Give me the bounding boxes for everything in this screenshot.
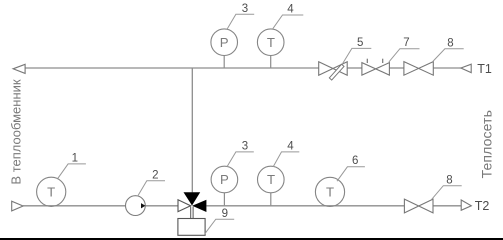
leader label 5 [342, 48, 371, 64]
svg-text:8: 8 [447, 37, 453, 49]
svg-text:В теплообменник: В теплообменник [9, 79, 24, 184]
wire bottom line from three-way valve to valve 8 [206, 205, 404, 207]
valve 7 tick left [366, 59, 368, 63]
svg-text:Т2: Т2 [475, 199, 490, 213]
svg-text:P: P [220, 172, 229, 187]
leader label 4 bottom [273, 152, 299, 167]
gauge T circle 4 top [257, 29, 284, 56]
svg-text:2: 2 [152, 169, 158, 181]
gauge P stem (pressure gauge 3 bottom) [223, 193, 225, 206]
leader label 1 [58, 164, 86, 179]
wire top line valve 8 to T1 arrow [433, 67, 461, 69]
wire bottom line valve 8 to T2 arrow [433, 205, 461, 207]
border bottom rule [0, 238, 503, 240]
svg-text:6: 6 [352, 155, 358, 167]
gauge P1 stem (pressure gauge 3 top) [223, 55, 225, 68]
svg-text:4: 4 [287, 4, 294, 16]
gauge P circle 3 bottom [211, 166, 238, 193]
svg-text:T: T [267, 172, 275, 187]
pump 2 arrow [141, 203, 145, 208]
leader label 8 bottom [432, 186, 462, 200]
thermometer T circle (item 6) [315, 177, 344, 206]
wire top line between valve 5 and valve 7 [347, 67, 362, 69]
node flow arrow to heat exchanger (top left) [13, 64, 25, 73]
svg-text:9: 9 [222, 208, 228, 220]
leader label 3 top [227, 14, 254, 29]
three-way valve stem [190, 207, 192, 219]
valve 8 (bottom) [404, 199, 433, 213]
gauge P circle 3 top [211, 29, 238, 56]
valve 5 (balancing valve, top) [319, 62, 348, 75]
svg-text:3: 3 [242, 141, 248, 153]
three-way valve 9 left port (open) [178, 200, 191, 212]
wire top supply line segment 1 [25, 67, 319, 69]
gauge T stem (thermometer 4 bottom) [270, 193, 272, 206]
svg-text:P: P [220, 35, 229, 50]
leader label 7 [389, 49, 420, 62]
wire vertical branch to three-way valve [191, 68, 193, 192]
leader label 2 [138, 181, 165, 197]
valve 7 tick right [382, 59, 384, 63]
three-way valve 9 top port (filled) [184, 192, 201, 205]
gauge T circle 4 bottom [258, 166, 285, 193]
actuator box 9 [178, 219, 205, 236]
leader label 3 bottom [227, 152, 254, 167]
node flow arrow T2 [461, 200, 471, 210]
svg-text:T: T [326, 185, 334, 200]
svg-text:7: 7 [403, 37, 409, 49]
valve 7 (top, with union ticks) [362, 63, 390, 76]
valve 5 handle slash [329, 64, 344, 80]
svg-text:3: 3 [242, 3, 248, 15]
valve 8 (top) [404, 62, 433, 76]
leader label 4 top [272, 15, 303, 30]
svg-text:T: T [47, 185, 55, 200]
node flow arrow from heat exchanger (bottom left) [12, 201, 23, 211]
wire bottom return line segment 1 [23, 205, 178, 207]
wire top line between valve 7 and valve 8 [389, 67, 404, 69]
svg-text:5: 5 [357, 37, 363, 49]
node flow arrow T1 [461, 64, 471, 72]
pump 2 circle [125, 196, 145, 216]
three-way valve 9 right port (filled) [192, 200, 206, 212]
svg-text:8: 8 [446, 174, 452, 186]
svg-text:Т1: Т1 [477, 62, 492, 76]
svg-text:T: T [267, 35, 275, 50]
gauge T stem (thermometer 4 top) [270, 55, 272, 68]
leader label 8 top [433, 49, 464, 62]
leader label 6 [337, 167, 365, 181]
svg-text:4: 4 [287, 141, 294, 153]
svg-text:1: 1 [72, 153, 78, 165]
leader label 9 [205, 219, 235, 234]
thermometer T1 circle (item 1) [37, 177, 66, 206]
svg-text:Теплосеть: Теплосеть [478, 110, 494, 178]
